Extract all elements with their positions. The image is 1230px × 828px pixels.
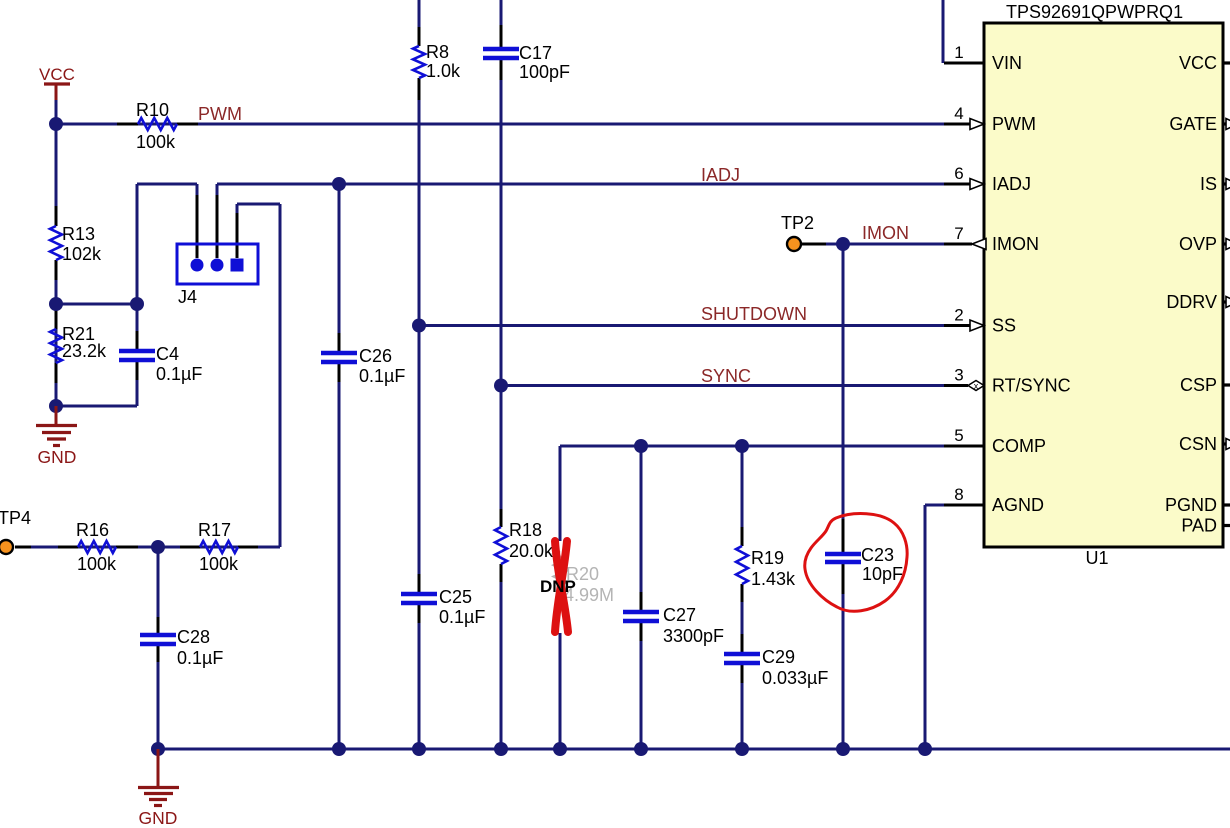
svg-text:5: 5 [954, 426, 963, 445]
svg-text:C27: C27 [663, 605, 696, 625]
svg-text:R13: R13 [62, 224, 95, 244]
svg-text:GND: GND [139, 808, 178, 828]
svg-text:C25: C25 [439, 587, 472, 607]
svg-text:20.0k: 20.0k [509, 541, 554, 561]
svg-text:C28: C28 [177, 627, 210, 647]
svg-text:1.43k: 1.43k [751, 569, 796, 589]
svg-text:AGND: AGND [992, 495, 1044, 515]
svg-text:0.1µF: 0.1µF [439, 607, 485, 627]
svg-text:100k: 100k [199, 554, 239, 574]
svg-text:IADJ: IADJ [701, 165, 740, 185]
svg-text:GATE: GATE [1169, 114, 1217, 134]
svg-text:R16: R16 [76, 520, 109, 540]
svg-text:DNP: DNP [540, 577, 576, 596]
svg-text:SYNC: SYNC [701, 366, 751, 386]
svg-text:0.1µF: 0.1µF [359, 366, 405, 386]
svg-text:x: x [974, 381, 979, 391]
svg-text:C29: C29 [762, 647, 795, 667]
svg-text:IMON: IMON [862, 223, 909, 243]
svg-text:IMON: IMON [992, 234, 1039, 254]
svg-text:IADJ: IADJ [992, 174, 1031, 194]
svg-text:OVP: OVP [1179, 234, 1217, 254]
svg-text:COMP: COMP [992, 436, 1046, 456]
svg-text:4: 4 [954, 104, 963, 123]
svg-text:23.2k: 23.2k [62, 341, 107, 361]
svg-text:PAD: PAD [1181, 516, 1217, 536]
svg-text:R18: R18 [509, 520, 542, 540]
svg-text:3300pF: 3300pF [663, 626, 724, 646]
svg-text:6: 6 [954, 164, 963, 183]
svg-text:0.1µF: 0.1µF [177, 648, 223, 668]
svg-text:C26: C26 [359, 346, 392, 366]
svg-text:J4: J4 [178, 287, 197, 307]
svg-text:CSP: CSP [1180, 375, 1217, 395]
svg-text:R8: R8 [426, 42, 449, 62]
svg-text:VIN: VIN [992, 53, 1022, 73]
svg-text:1.0k: 1.0k [426, 61, 461, 81]
svg-text:R19: R19 [751, 548, 784, 568]
svg-text:3: 3 [954, 366, 963, 385]
svg-text:2: 2 [954, 306, 963, 325]
svg-text:C23: C23 [861, 545, 894, 565]
svg-text:VCC: VCC [1179, 53, 1217, 73]
svg-text:SHUTDOWN: SHUTDOWN [701, 304, 807, 324]
svg-text:GND: GND [38, 447, 77, 467]
svg-text:SS: SS [992, 316, 1016, 336]
svg-text:R17: R17 [198, 520, 231, 540]
svg-text:100k: 100k [77, 554, 117, 574]
svg-text:7: 7 [954, 224, 963, 243]
svg-text:VCC: VCC [39, 65, 75, 84]
svg-text:102k: 102k [62, 244, 102, 264]
svg-text:PWM: PWM [992, 114, 1036, 134]
svg-text:TPS92691QPWPRQ1: TPS92691QPWPRQ1 [1006, 2, 1183, 22]
svg-text:100pF: 100pF [519, 62, 570, 82]
svg-text:100k: 100k [136, 132, 176, 152]
svg-text:CSN: CSN [1179, 434, 1217, 454]
svg-text:10pF: 10pF [862, 564, 903, 584]
svg-text:PWM: PWM [198, 104, 242, 124]
svg-text:IS: IS [1200, 174, 1217, 194]
svg-text:DDRV: DDRV [1166, 292, 1217, 312]
svg-text:PGND: PGND [1165, 495, 1217, 515]
svg-text:0.1µF: 0.1µF [156, 364, 202, 384]
svg-text:U1: U1 [1085, 548, 1108, 568]
svg-text:TP4: TP4 [0, 508, 31, 528]
svg-text:8: 8 [954, 485, 963, 504]
svg-text:TP2: TP2 [781, 213, 814, 233]
svg-text:0.033µF: 0.033µF [762, 668, 828, 688]
svg-text:C4: C4 [156, 344, 179, 364]
svg-text:R10: R10 [136, 100, 169, 120]
svg-text:C17: C17 [519, 43, 552, 63]
svg-text:1: 1 [954, 43, 963, 62]
svg-text:RT/SYNC: RT/SYNC [992, 376, 1071, 396]
